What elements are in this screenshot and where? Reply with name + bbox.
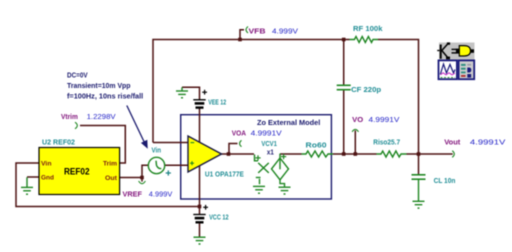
svg-text:Vtrim: Vtrim: [61, 112, 78, 121]
svg-text:Transient=10m Vpp: Transient=10m Vpp: [67, 83, 131, 90]
svg-text:VCV1: VCV1: [261, 141, 277, 148]
svg-text:4.9991V: 4.9991V: [369, 115, 400, 124]
svg-text:4.999V: 4.999V: [272, 26, 298, 35]
svg-text:VFB: VFB: [249, 26, 267, 35]
svg-text:4.999V: 4.999V: [149, 189, 173, 198]
svg-text:f=100Hz, 10ns rise/fall: f=100Hz, 10ns rise/fall: [67, 94, 143, 101]
svg-text:VREF: VREF: [123, 189, 143, 198]
svg-text:DC=0V: DC=0V: [67, 72, 88, 79]
svg-text:VCC 12: VCC 12: [209, 215, 229, 222]
svg-text:4.9991V: 4.9991V: [470, 137, 506, 146]
svg-text:Vin: Vin: [41, 160, 52, 167]
svg-text:Riso25.7: Riso25.7: [373, 140, 400, 147]
svg-text:Trim: Trim: [103, 160, 117, 167]
svg-text:4.9991V: 4.9991V: [251, 128, 282, 137]
svg-text:U1 OPA177E: U1 OPA177E: [205, 171, 244, 178]
svg-text:CL 10n: CL 10n: [434, 178, 456, 185]
svg-text:RF 100k: RF 100k: [353, 26, 383, 33]
svg-text:Gnd: Gnd: [41, 175, 54, 182]
svg-text:U2 REF02: U2 REF02: [42, 139, 75, 146]
svg-text:VEE 12: VEE 12: [208, 100, 226, 107]
svg-text:Vout: Vout: [444, 138, 461, 147]
svg-text:Out: Out: [105, 175, 118, 182]
svg-text:1.2298V: 1.2298V: [87, 112, 116, 121]
svg-text:VO: VO: [352, 115, 363, 124]
svg-text:REF02: REF02: [64, 167, 90, 177]
svg-text:CF 220p: CF 220p: [351, 87, 381, 94]
svg-text:Vin: Vin: [152, 147, 162, 154]
svg-text:VOA: VOA: [232, 128, 247, 137]
svg-text:x1: x1: [267, 150, 274, 157]
svg-text:Zo External Model: Zo External Model: [257, 120, 320, 127]
svg-text:Ro60: Ro60: [306, 143, 327, 150]
